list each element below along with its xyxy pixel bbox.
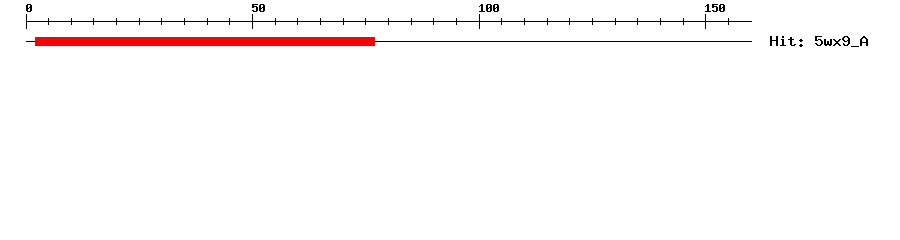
- major tick 100: [479, 14, 480, 29]
- ruler label "100": [479, 4, 499, 12]
- hit bar (aligned region, red): [35, 37, 375, 46]
- hit track baseline (query extent): [26, 41, 752, 42]
- ruler label "0": [26, 4, 32, 12]
- major tick 0: [26, 14, 27, 29]
- hit label "Hit: 5wx9_A": [770, 36, 868, 47]
- major tick 50: [252, 14, 253, 29]
- ruler axis line: [26, 21, 752, 22]
- major tick 150: [705, 14, 706, 29]
- minor ticks (every 5 residues): [48, 18, 729, 25]
- background: [0, 0, 900, 60]
- ruler label "50": [252, 4, 265, 12]
- ruler label "150": [705, 4, 725, 12]
